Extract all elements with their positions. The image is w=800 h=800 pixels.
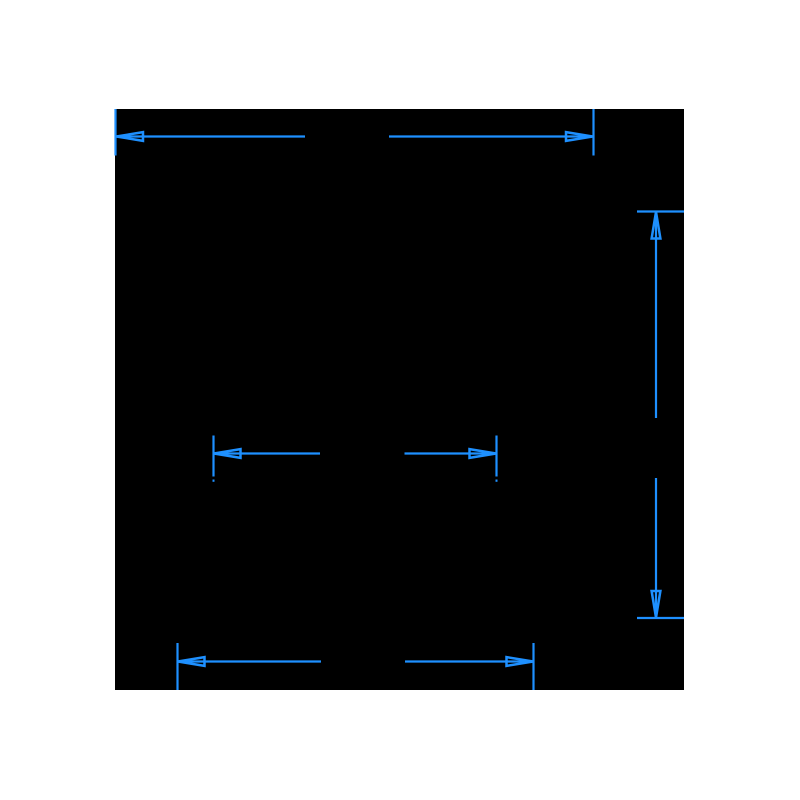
bottom width dimension: dimension line right segment <box>405 660 533 662</box>
middle width dimension: right extension line <box>495 436 497 477</box>
right height dimension: bottom extension line <box>637 617 684 619</box>
middle width dimension: right extension dash dot <box>496 480 498 482</box>
right height dimension: bottom open arrowhead <box>652 591 661 618</box>
top width dimension: left open arrowhead <box>117 132 144 141</box>
right height dimension: top extension line <box>637 210 684 212</box>
bottom width dimension: dimension line left segment <box>178 660 321 662</box>
right height dimension: dimension line lower segment <box>655 478 657 618</box>
middle width dimension: dimension line right segment <box>405 452 497 454</box>
bottom width dimension: right extension line <box>532 643 534 690</box>
middle width dimension: left extension line <box>212 436 214 477</box>
right height dimension: dimension line upper segment <box>655 212 657 418</box>
bottom width dimension: right open arrowhead <box>507 657 534 666</box>
top width dimension: dimension line left segment <box>117 135 306 137</box>
middle width dimension: left extension dash dot <box>213 480 215 482</box>
bottom width dimension: left open arrowhead <box>178 657 205 666</box>
middle width dimension: dimension line left segment <box>214 452 320 454</box>
top width dimension: dimension line right segment <box>389 135 593 137</box>
middle width dimension: right open arrowhead <box>470 449 497 458</box>
right height dimension: top open arrowhead <box>652 212 661 239</box>
product silhouette (black rectangle) <box>115 109 684 690</box>
top width dimension: right extension line <box>592 109 594 156</box>
top width dimension: right open arrowhead <box>566 132 593 141</box>
top width dimension: left extension line <box>114 109 116 156</box>
middle width dimension: left open arrowhead <box>214 449 241 458</box>
bottom width dimension: left extension line <box>176 643 178 690</box>
